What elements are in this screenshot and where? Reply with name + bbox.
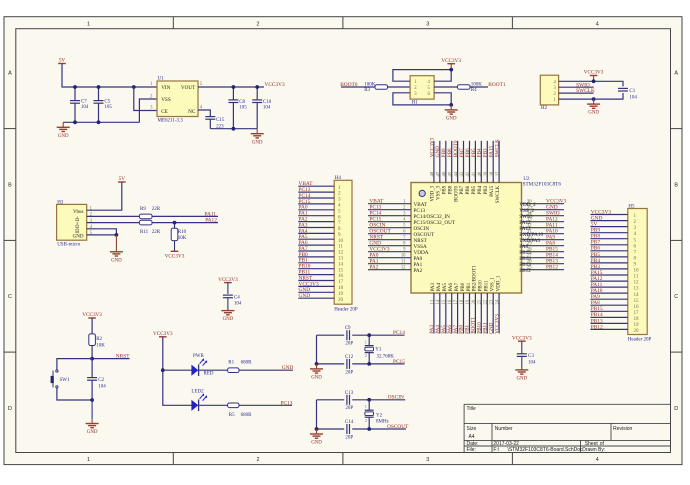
svg-text:R2: R2	[96, 337, 102, 342]
svg-text:VCC3V3: VCC3V3	[584, 70, 604, 76]
svg-text:100K: 100K	[364, 82, 376, 87]
H4 pin numbers	[338, 185, 344, 303]
svg-text:PB11: PB11	[485, 280, 490, 291]
ground	[521, 369, 523, 371]
U2 top pin net labels	[429, 137, 500, 157]
svg-text:24: 24	[496, 299, 501, 304]
svg-text:Title: Title	[467, 406, 476, 412]
power port VCC3V3	[159, 336, 167, 338]
junction dot	[592, 79, 596, 83]
svg-text:R1: R1	[228, 361, 234, 366]
svg-text:PB6: PB6	[466, 185, 471, 194]
svg-text:20P: 20P	[345, 371, 353, 376]
LED PWR	[191, 365, 198, 376]
capacitor C1	[618, 87, 628, 89]
wire GND pin	[87, 234, 117, 236]
svg-text:C12: C12	[345, 355, 354, 360]
svg-text:20P: 20P	[345, 406, 353, 411]
resistor R11 22R	[139, 220, 152, 225]
svg-text:Header 20P: Header 20P	[628, 337, 652, 342]
svg-text:VIN: VIN	[161, 85, 170, 91]
svg-text:5V: 5V	[59, 58, 66, 64]
capacitor C3	[521, 341, 523, 354]
svg-text:PB0: PB0	[461, 282, 466, 291]
U2 bottom pin names	[431, 265, 501, 292]
svg-text:U1: U1	[158, 77, 165, 82]
svg-text:1: 1	[87, 21, 90, 27]
svg-text:D: D	[674, 406, 678, 412]
resistor R1 680R	[228, 368, 239, 373]
wire R11 to PA12	[152, 222, 218, 224]
svg-text:PB10: PB10	[479, 280, 484, 292]
U2 top pin numbers	[431, 171, 501, 176]
svg-text:11: 11	[401, 260, 406, 265]
svg-text:SWCLK: SWCLK	[496, 185, 501, 203]
svg-text:10K: 10K	[178, 236, 187, 241]
wire crystal2 left rail	[316, 400, 318, 429]
svg-text:VOUT: VOUT	[181, 85, 196, 91]
svg-text:44: 44	[454, 171, 459, 176]
LED LED2	[191, 400, 198, 411]
svg-text:C8: C8	[239, 100, 245, 105]
svg-text:BOOT1: BOOT1	[488, 82, 506, 88]
resistor R4 100K	[458, 85, 471, 90]
junction dot	[115, 233, 119, 237]
svg-text:VCC3V3: VCC3V3	[494, 314, 500, 334]
svg-text:19: 19	[634, 322, 640, 328]
svg-text:20P: 20P	[345, 342, 353, 347]
ground	[91, 400, 93, 420]
junction dot	[90, 398, 94, 402]
svg-text:VSS_3: VSS_3	[437, 185, 442, 200]
wire GND rail left	[63, 121, 139, 123]
net label SWCLK wire	[559, 92, 594, 94]
junction dot	[367, 427, 371, 431]
ground	[450, 105, 452, 110]
capacitor C10	[256, 87, 258, 100]
svg-text:PA6: PA6	[449, 282, 454, 291]
svg-text:ID: ID	[76, 228, 81, 234]
svg-text:PWR: PWR	[193, 354, 205, 359]
svg-text:D-: D-	[76, 216, 81, 221]
svg-text:46: 46	[443, 171, 448, 176]
svg-text:17: 17	[454, 299, 459, 304]
svg-text:3: 3	[426, 457, 429, 463]
H5 net labels	[591, 209, 612, 330]
svg-text:5V: 5V	[119, 176, 126, 182]
wire ID join GND	[87, 229, 117, 235]
wire H2 pin1 to GND and C1	[559, 93, 623, 99]
svg-text:H3: H3	[57, 200, 64, 205]
svg-text:PC14: PC14	[393, 330, 405, 336]
svg-text:21: 21	[478, 299, 483, 304]
svg-text:VSS_1: VSS_1	[491, 277, 496, 292]
ground	[316, 429, 318, 434]
svg-text:41: 41	[472, 171, 477, 176]
wire H2 pin4 to VCC and C1	[559, 81, 623, 86]
svg-text:File:: File:	[467, 447, 476, 453]
wire C13 to OSCIN label	[352, 399, 405, 401]
wire D- to R9	[87, 215, 140, 217]
svg-text:C5: C5	[104, 99, 110, 104]
svg-text:Header 20P: Header 20P	[334, 307, 358, 312]
U2 right pin net labels	[546, 199, 567, 271]
wire Vbus to 5V	[87, 182, 122, 210]
svg-text:PB2/BOOT1: PB2/BOOT1	[473, 265, 478, 292]
junction dot	[367, 333, 371, 337]
capacitor C14	[346, 424, 348, 434]
svg-text:GND: GND	[516, 377, 527, 382]
svg-text:H5: H5	[628, 204, 635, 209]
svg-text:F:\: F:\	[493, 447, 499, 453]
svg-text:PA11: PA11	[205, 212, 217, 218]
wire R10 to VCC3V3	[174, 241, 176, 252]
svg-text:GND: GND	[311, 376, 322, 381]
U2 bottom pin net labels	[429, 314, 500, 334]
svg-text:19: 19	[466, 299, 471, 304]
svg-text:PB14: PB14	[591, 312, 603, 318]
resistor R9 22R	[139, 214, 152, 219]
svg-text:GND: GND	[311, 441, 322, 446]
wire H1 pin5 to R4	[434, 86, 457, 88]
svg-text:PA5: PA5	[443, 282, 448, 291]
svg-text:2: 2	[365, 419, 367, 423]
wire OSCIN row	[317, 399, 345, 401]
svg-text:B: B	[8, 182, 12, 188]
svg-text:VCC3V3: VCC3V3	[441, 58, 461, 64]
svg-text:Number: Number	[495, 426, 513, 432]
svg-text:PB7: PB7	[460, 185, 465, 194]
svg-text:B: B	[674, 182, 678, 188]
capacitor C8	[232, 87, 234, 100]
svg-text:PA2: PA2	[369, 265, 378, 271]
U2 top pins 37-48 wires	[434, 141, 499, 183]
svg-text:BOOT0: BOOT0	[454, 185, 459, 202]
wire 5V to VIN rail	[62, 64, 157, 88]
U2 bottom pins 13-24 wires	[434, 293, 499, 334]
header H1	[410, 76, 434, 99]
svg-text:SWCLK: SWCLK	[495, 139, 501, 157]
junction dot NRST	[90, 357, 94, 361]
svg-text:38: 38	[490, 171, 495, 176]
svg-text:PB3: PB3	[591, 264, 601, 270]
wire CE to VIN rail	[134, 87, 157, 111]
svg-text:GND: GND	[446, 117, 457, 122]
svg-text:11: 11	[634, 274, 639, 280]
junction dot	[161, 368, 165, 372]
resistor R10 10K	[174, 223, 176, 229]
svg-text:SW1: SW1	[60, 378, 71, 383]
U2 left pin names	[414, 202, 456, 274]
svg-text:VCC3V3: VCC3V3	[591, 209, 612, 215]
ground	[256, 129, 258, 134]
svg-text:32.768K: 32.768K	[377, 355, 395, 360]
wire R3 to H1 pin2	[388, 86, 411, 88]
svg-text:PB3: PB3	[484, 185, 489, 194]
svg-text:C: C	[674, 294, 678, 300]
svg-text:47: 47	[437, 171, 442, 176]
svg-text:USB-micro: USB-micro	[57, 242, 81, 247]
H5 pin wires	[590, 215, 627, 330]
svg-text:1: 1	[365, 341, 367, 345]
svg-text:40: 40	[478, 171, 483, 176]
net label SWIO wire	[559, 86, 594, 88]
svg-text:43: 43	[460, 171, 465, 176]
svg-text:3: 3	[426, 21, 429, 27]
svg-text:CE: CE	[161, 109, 168, 115]
svg-text:VCC3V3: VCC3V3	[512, 335, 532, 341]
svg-text:VCC3V3: VCC3V3	[153, 331, 173, 337]
U2 left pin numbers	[401, 200, 406, 271]
crystal Y2	[368, 400, 370, 410]
wire to PWR led	[163, 369, 192, 371]
svg-text:680R: 680R	[241, 413, 253, 418]
svg-text:C13: C13	[345, 391, 354, 396]
svg-text:C1: C1	[629, 89, 635, 94]
svg-text:VCC3V3: VCC3V3	[165, 254, 185, 260]
resistor R2 10K	[89, 334, 96, 346]
svg-text:R10: R10	[178, 230, 187, 235]
svg-text:A: A	[674, 71, 678, 77]
power port VCC3V3	[224, 282, 232, 284]
wire PC14 row	[317, 334, 345, 336]
wire OSCOUT row	[317, 428, 345, 430]
svg-text:GND: GND	[223, 317, 234, 322]
svg-text:GND: GND	[111, 258, 122, 263]
svg-text:1: 1	[87, 457, 90, 463]
U2 top pin names	[431, 185, 501, 203]
U2 bottom pin numbers	[430, 299, 500, 304]
U2 left pins 1-12 wires	[368, 204, 411, 270]
svg-text:45: 45	[448, 171, 453, 176]
svg-text:C14: C14	[345, 420, 354, 425]
svg-text:SWCLK: SWCLK	[576, 88, 595, 94]
wire C14 to OSCOUT label	[352, 428, 406, 430]
svg-text:PC13: PC13	[281, 400, 293, 406]
power port VCC3V3	[518, 340, 526, 342]
capacitor C12	[346, 359, 348, 369]
svg-text:PB8: PB8	[591, 234, 601, 240]
svg-text:H2: H2	[541, 106, 548, 111]
svg-text:PC15: PC15	[393, 359, 405, 365]
svg-text:13: 13	[430, 299, 435, 304]
svg-text:2: 2	[257, 457, 260, 463]
wire VSS to GND rail	[139, 99, 157, 122]
svg-text:\STM32F103C8T6-Board.SchDoc: \STM32F103C8T6-Board.SchDoc	[508, 447, 584, 453]
U2 right pin names	[519, 202, 543, 274]
svg-text:Y1: Y1	[375, 348, 382, 353]
junction dot	[173, 221, 177, 225]
wire D+ to R11	[87, 222, 140, 224]
header H4	[334, 180, 352, 304]
power port VCC3V3	[450, 64, 452, 70]
wire R9 to PA11	[152, 215, 218, 217]
power port VCC3V3	[593, 76, 595, 82]
svg-text:GND: GND	[299, 293, 311, 299]
svg-text:C2: C2	[98, 378, 104, 383]
svg-text:STM32F103C8T6: STM32F103C8T6	[523, 182, 562, 188]
svg-text:R11: R11	[140, 230, 149, 235]
svg-text:A: A	[8, 71, 12, 77]
svg-text:R3: R3	[364, 88, 370, 93]
svg-text:PB12: PB12	[591, 324, 603, 330]
svg-text:1: 1	[365, 405, 367, 409]
header H5	[628, 209, 647, 335]
capacitor C9	[346, 330, 348, 340]
svg-text:48: 48	[431, 171, 436, 176]
svg-text:VSS: VSS	[161, 97, 171, 103]
junction dots VOUT	[232, 85, 236, 89]
svg-text:13: 13	[634, 286, 640, 292]
ground	[62, 122, 64, 127]
svg-text:5V: 5V	[591, 222, 598, 228]
svg-text:PB5: PB5	[472, 185, 477, 194]
svg-text:C9: C9	[345, 326, 351, 331]
svg-text:VDD_3: VDD_3	[431, 185, 436, 201]
svg-text:22R: 22R	[152, 207, 161, 212]
ground	[316, 364, 318, 369]
svg-text:16: 16	[448, 299, 453, 304]
svg-text:22R: 22R	[152, 230, 161, 235]
svg-text:C7: C7	[81, 99, 87, 104]
svg-text:GND: GND	[588, 111, 599, 116]
svg-text:C15: C15	[216, 118, 225, 123]
svg-text:15: 15	[442, 299, 447, 304]
svg-text:C3: C3	[528, 354, 534, 359]
junction dot	[592, 97, 596, 101]
wire H1 pin1/pin4 to VCC	[393, 70, 451, 82]
capacitor C13	[346, 395, 348, 405]
svg-text:20: 20	[472, 299, 477, 304]
regulator U1	[157, 81, 198, 117]
wire BOOT0 to R3	[341, 86, 375, 88]
svg-text:20: 20	[634, 328, 640, 334]
power port 5V	[58, 63, 66, 65]
svg-text:GND: GND	[282, 365, 294, 371]
svg-text:OSCOUT: OSCOUT	[387, 424, 409, 430]
svg-text:14: 14	[436, 299, 441, 304]
svg-text:R9: R9	[140, 207, 146, 212]
wire switch branch	[57, 359, 92, 370]
svg-text:D: D	[8, 406, 12, 412]
wire crystal left rail	[316, 335, 318, 364]
svg-text:PB8: PB8	[448, 185, 453, 194]
power port VCC3V3	[88, 317, 96, 319]
svg-text:PA3: PA3	[431, 282, 436, 291]
wire R5 to PC13	[239, 404, 292, 406]
svg-text:H4: H4	[335, 176, 342, 181]
capacitor C7	[74, 87, 76, 101]
svg-text:4: 4	[596, 21, 599, 27]
svg-text:104: 104	[234, 302, 242, 307]
junction dot	[449, 68, 453, 72]
svg-text:104: 104	[98, 384, 106, 389]
svg-text:104: 104	[528, 360, 536, 365]
svg-text:42: 42	[466, 171, 471, 176]
svg-text:PB4: PB4	[478, 185, 483, 194]
svg-text:2: 2	[257, 21, 260, 27]
svg-text:R5: R5	[229, 413, 235, 418]
power port 5V	[118, 181, 126, 183]
svg-text:20P: 20P	[345, 436, 353, 441]
svg-text:VCC3V3: VCC3V3	[218, 277, 238, 283]
junction dots power rails	[73, 85, 77, 89]
svg-text:Drawn By:: Drawn By:	[582, 447, 605, 453]
switch SW1	[56, 370, 58, 372]
svg-text:2: 2	[365, 354, 367, 358]
svg-text:104: 104	[629, 95, 637, 100]
svg-text:C: C	[8, 294, 12, 300]
svg-text:GND: GND	[87, 430, 98, 435]
net label NRST	[92, 358, 129, 360]
svg-text:39: 39	[484, 171, 489, 176]
crystal Y1	[368, 335, 370, 345]
svg-text:C4: C4	[234, 295, 240, 300]
svg-text:PA8: PA8	[591, 300, 600, 306]
wire LED to R1	[198, 369, 227, 371]
svg-text:PB12: PB12	[519, 268, 531, 274]
svg-text:105: 105	[104, 105, 112, 110]
svg-text:GND: GND	[58, 134, 69, 139]
svg-text:PB12: PB12	[546, 265, 558, 271]
svg-text:R4: R4	[471, 88, 477, 93]
power port VCC3V3 down	[171, 250, 179, 252]
svg-text:23: 23	[490, 299, 495, 304]
wire C9 to PC14 label	[352, 334, 404, 336]
svg-text:104: 104	[81, 105, 89, 110]
capacitor C5	[98, 87, 100, 101]
wire R4 to BOOT1	[470, 86, 488, 88]
USB connector H3	[57, 204, 87, 240]
svg-text:PA7: PA7	[455, 282, 460, 291]
svg-text:104: 104	[263, 106, 271, 111]
junction dot	[315, 427, 319, 431]
svg-text:ME6211-3.3: ME6211-3.3	[158, 118, 184, 123]
svg-text:C10: C10	[263, 100, 272, 105]
svg-text:12: 12	[401, 266, 406, 271]
ground	[593, 99, 595, 104]
svg-text:37: 37	[496, 171, 501, 176]
svg-text:Y2: Y2	[376, 414, 383, 419]
wire R2 to NRST node	[91, 346, 93, 359]
svg-text:PA15: PA15	[490, 185, 495, 196]
svg-text:105: 105	[239, 106, 247, 111]
H5 pin numbers	[634, 213, 640, 334]
U2 right pin numbers	[527, 200, 532, 271]
U2 left pin net labels	[369, 199, 391, 271]
svg-text:PB9: PB9	[443, 185, 448, 194]
svg-text:15: 15	[634, 298, 640, 304]
header H2	[540, 75, 558, 105]
capacitor C4	[227, 283, 229, 294]
svg-text:D+: D+	[76, 221, 81, 227]
svg-text:VCC3V3: VCC3V3	[265, 82, 286, 88]
wire GND rail right	[210, 128, 257, 130]
svg-text:LED2: LED2	[191, 389, 204, 394]
svg-text:PA4: PA4	[437, 282, 442, 291]
wire VCC to R2	[91, 318, 93, 334]
svg-text:PB1: PB1	[467, 282, 472, 291]
svg-text:NRST: NRST	[116, 354, 130, 360]
svg-text:GND: GND	[252, 140, 263, 145]
svg-text:680R: 680R	[241, 361, 253, 366]
wire VCC down to LEDs	[163, 337, 192, 406]
svg-text:18: 18	[460, 299, 465, 304]
junction dot	[367, 362, 371, 366]
H4 pin wires	[298, 186, 334, 298]
svg-text:10K: 10K	[96, 343, 105, 348]
svg-text:OSCIN: OSCIN	[388, 394, 404, 400]
